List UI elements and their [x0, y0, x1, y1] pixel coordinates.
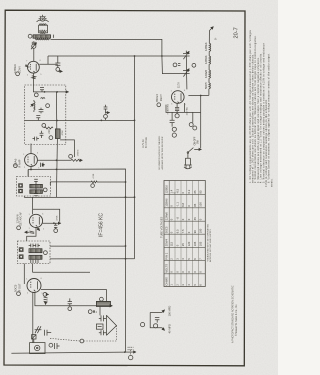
- svg-text:NO IDENTIFICATION OF THE MFR.: NO IDENTIFICATION OF THE MFR.: [158, 135, 161, 169]
- svg-text:2: 2: [24, 167, 25, 169]
- capacitor C16 on screen wire: [68, 298, 72, 310]
- svg-text:100: 100: [199, 228, 203, 233]
- svg-text:5: 5: [38, 167, 39, 169]
- ref R4 circle: [69, 155, 73, 159]
- electrolytic C17A: [170, 112, 177, 137]
- ref C9 circle: [42, 124, 46, 128]
- wire long vertical bus B plus: [134, 56, 136, 259]
- border frame: [4, 10, 245, 366]
- value 470K marks: [57, 215, 59, 221]
- svg-text:-.6: -.6: [175, 217, 179, 221]
- wire af grid lines: [24, 264, 90, 285]
- ref V4 circle: [17, 292, 21, 296]
- capacitor C8: [40, 131, 44, 138]
- IF coil primary hatched: [55, 129, 60, 139]
- svg-text:5: 5: [42, 293, 43, 295]
- output transformer T2: [96, 297, 112, 306]
- svg-text:6: 6: [41, 278, 42, 280]
- svg-text:1: 1: [26, 279, 27, 281]
- svg-text:DET-AVC-AF: DET-AVC-AF: [20, 211, 23, 225]
- tube V2 12BA6 IF amp: [25, 144, 38, 167]
- svg-text:40 MFD: 40 MFD: [167, 324, 171, 333]
- capacitor C7 with ground arrow: [104, 105, 110, 121]
- svg-text:12BE6: 12BE6: [204, 42, 208, 51]
- pin 3 tick: [53, 35, 55, 38]
- svg-text:5: 5: [43, 229, 44, 231]
- svg-text:120: 120: [187, 241, 191, 246]
- notes list right margin: [249, 29, 274, 187]
- svg-text:1: 1: [35, 77, 36, 79]
- value marks electrolytic: [167, 306, 171, 334]
- wire coil top to plate resistor: [60, 140, 74, 157]
- svg-text:APPEARS UPON THIS RECEIVER: APPEARS UPON THIS RECEIVER: [161, 136, 164, 169]
- dashed gang link: [50, 326, 117, 341]
- wire screen feed: [35, 293, 97, 306]
- svg-text:105: 105: [199, 241, 203, 246]
- svg-text:©Howard W. Sams & Co., Inc.: ©Howard W. Sams & Co., Inc.: [235, 304, 238, 336]
- ref R6 circle right: [44, 251, 48, 255]
- svg-text:2. Socket connections are sho: 2. Socket connections are shown as botto…: [254, 35, 257, 183]
- svg-text:±15% in voltage and resistance: ±15% in voltage and resistance readings …: [265, 99, 268, 187]
- label on-off sw: [194, 136, 199, 145]
- ref trimmer left: [173, 63, 177, 67]
- svg-text:5: 5: [185, 104, 186, 106]
- ref C8 circle: [49, 136, 53, 140]
- pin digits specks: [23, 60, 185, 295]
- heater labels: [204, 42, 208, 89]
- AVC arrow: [37, 228, 40, 231]
- svg-text:VOLTS: VOLTS: [165, 264, 169, 273]
- phono jack scribbles: [35, 326, 52, 335]
- svg-text:12BA6: 12BA6: [204, 55, 208, 64]
- label V2 12BA6 IF: [13, 158, 21, 168]
- svg-text:105: 105: [193, 241, 197, 246]
- resistor R4 with arrow: [71, 159, 82, 161]
- svg-text:ACROSS 117V AC LINE SUPPLY: ACROSS 117V AC LINE SUPPLY: [209, 229, 212, 262]
- resistor det cathode: [25, 231, 35, 233]
- wire bus y120: [25, 119, 135, 121]
- value R5 marks: [93, 173, 95, 178]
- capacitor pair bottom: [31, 260, 38, 263]
- svg-text:35W4: 35W4: [165, 239, 169, 247]
- svg-text:50C5: 50C5: [204, 82, 208, 89]
- photofact footer: [232, 285, 238, 343]
- wire screen bus y182: [50, 182, 125, 185]
- wire vol to bus y246: [50, 245, 126, 247]
- svg-text:470K: 470K: [62, 130, 64, 136]
- svg-text:2: 2: [29, 228, 30, 230]
- disclaimer text mid: [158, 135, 164, 169]
- svg-text:IF AMP: IF AMP: [18, 159, 22, 168]
- ref V3 circle: [17, 226, 21, 230]
- line cord plug: [184, 153, 192, 169]
- svg-text:2: 2: [27, 293, 28, 295]
- node junction dots top bus: [134, 55, 163, 57]
- cathode capacitor 12BA6: [41, 163, 45, 167]
- ref V2 circle: [14, 164, 18, 168]
- resistor R5 on screen bus: [91, 181, 97, 183]
- ref trimmer right: [192, 63, 196, 67]
- svg-text:7.5: 7.5: [181, 229, 185, 233]
- tube V1 12BE6 converter: [28, 61, 40, 73]
- svg-text:12AV6: 12AV6: [165, 212, 169, 221]
- label V4 50C5: [13, 283, 21, 293]
- label 117V: [177, 82, 181, 88]
- svg-text:50C5: 50C5: [13, 284, 17, 292]
- label V5 35W4 RECT: [155, 94, 189, 116]
- svg-text:-6.5: -6.5: [175, 188, 179, 193]
- svg-text:1. DC Voltage measurements ar: 1. DC Voltage measurements are at 20,000…: [249, 29, 252, 183]
- svg-text:117V AC: 117V AC: [186, 107, 189, 116]
- jack box with socket: [30, 343, 45, 354]
- svg-text:measured at 1,000 ohms per vol: measured at 1,000 ohms per volt. Socket …: [252, 53, 255, 183]
- svg-text:* MEASURED WITH SET OPERATING: * MEASURED WITH SET OPERATING: [207, 223, 210, 262]
- svg-text:IF=456 KC: IF=456 KC: [99, 213, 105, 237]
- speaker assembly: [96, 307, 116, 336]
- svg-text:470K: 470K: [57, 215, 59, 221]
- svg-text:B-: B-: [214, 37, 217, 40]
- tube V4 50C5 output: [27, 279, 41, 293]
- power sub box: [166, 96, 201, 113]
- oscillator dashed box: [25, 85, 66, 145]
- svg-text:ments.: ments.: [270, 178, 273, 187]
- surge resistor M1: [175, 103, 179, 118]
- svg-text:RECT: RECT: [159, 94, 163, 101]
- loop antenna sunburst L1: [37, 15, 49, 22]
- capacitor bottom in box: [34, 188, 38, 196]
- svg-text:12AV6: 12AV6: [15, 214, 19, 223]
- ref C12 circle: [54, 229, 58, 233]
- oscillator coil tapped: [31, 100, 35, 112]
- svg-text:7: 7: [26, 60, 27, 62]
- ref A1 circle: [28, 34, 32, 38]
- grid cap scribble: [25, 64, 27, 66]
- capacitor C4: [55, 56, 62, 71]
- svg-text:ON-OFF: ON-OFF: [194, 136, 196, 145]
- svg-text:3: 3: [171, 104, 172, 106]
- value marks R4: [78, 149, 80, 156]
- svg-text:20-7: 20-7: [233, 27, 239, 38]
- IF2 coil lower hatched: [30, 190, 43, 194]
- wire grid lead: [33, 48, 35, 61]
- ref V1 circle: [16, 72, 20, 76]
- volume coil upper hatched: [29, 249, 42, 253]
- wire 50C5 plate to OT: [41, 290, 107, 302]
- capacitor osc padder: [39, 108, 44, 114]
- ref and capacitor right of jack: [49, 343, 60, 349]
- tube V3 12AV6 det avc af: [29, 214, 42, 227]
- svg-text:12BE6: 12BE6: [165, 185, 169, 194]
- svg-text:4. Line voltage maintained at: 4. Line voltage maintained at 117 Volts …: [260, 53, 263, 183]
- trimmer capacitor A: [183, 51, 190, 60]
- svg-text:OHMS: OHMS: [165, 277, 169, 286]
- svg-text:85: 85: [193, 203, 197, 206]
- svg-text:50C5: 50C5: [165, 226, 169, 233]
- voltage table grid: [164, 181, 205, 287]
- svg-text:60 CYCLE: 60 CYCLE: [146, 137, 148, 148]
- svg-text:3. Measured values are with n: 3. Measured values are with no signal in…: [257, 57, 260, 183]
- wire det down: [27, 228, 36, 242]
- svg-text:6: 6: [37, 153, 38, 155]
- svg-text:TUBE VOLTAGES: TUBE VOLTAGES: [159, 216, 163, 238]
- coil L2 scribble: [41, 98, 45, 99]
- svg-text:85: 85: [199, 190, 203, 193]
- tuning capacitor C1A: [31, 41, 37, 49]
- svg-text:6: 6: [40, 60, 41, 62]
- svg-text:6: 6: [184, 90, 185, 92]
- svg-text:5. Nominal tolerance on compo: 5. Nominal tolerance on component values…: [262, 43, 265, 183]
- ref boxes left: [19, 184, 23, 188]
- svg-text:6.3: 6.3: [187, 189, 191, 193]
- svg-text:6.5: 6.5: [175, 229, 179, 233]
- secondary loops row: [35, 39, 49, 40]
- wire det diode lead: [43, 222, 60, 224]
- svg-text:6: 6: [42, 213, 43, 215]
- value 22K marks: [47, 129, 51, 134]
- ground arrow det: [60, 222, 61, 224]
- volume coil lower hatched: [29, 255, 42, 259]
- trimmer capacitor B: [183, 69, 190, 77]
- wire switch feed: [200, 112, 202, 145]
- label V3 12AV6: [15, 211, 22, 225]
- svg-text:100 MFD: 100 MFD: [167, 306, 171, 317]
- ref L2 circle: [46, 104, 50, 108]
- wire det grid: [32, 198, 34, 215]
- wire 50C5 down to jack: [32, 293, 34, 343]
- wire into box: [27, 170, 29, 177]
- svg-text:35: 35: [181, 243, 185, 246]
- value marks right of coil: [62, 130, 64, 136]
- electrolytic network right: [141, 310, 165, 331]
- wire cathode into osc box: [32, 73, 34, 92]
- wire trimmer down to rect tube: [185, 56, 188, 89]
- svg-text:115: 115: [170, 242, 174, 247]
- svg-text:-1.1: -1.1: [175, 202, 179, 207]
- svg-text:12AV6: 12AV6: [204, 69, 208, 78]
- ref boxes left vol: [19, 248, 23, 252]
- label V1 12BE6 CONV: [13, 64, 21, 74]
- svg-text:1 MEG: 1 MEG: [78, 149, 80, 156]
- tube V5 35W4 rectifier: [172, 91, 185, 104]
- wire heater to rectifier: [188, 94, 209, 96]
- IF transformer second dashed box: [17, 177, 51, 197]
- wire det plate jog: [33, 209, 60, 222]
- IF2 coil upper hatched: [30, 184, 43, 188]
- svg-text:22K: 22K: [47, 129, 51, 134]
- svg-text:CONV: CONV: [17, 66, 21, 74]
- antenna coil loops bottom: [39, 30, 46, 33]
- wire osc plate bus: [33, 91, 69, 93]
- table side note: [207, 223, 213, 262]
- svg-text:2: 2: [27, 74, 28, 76]
- svg-text:1: 1: [29, 214, 30, 216]
- antenna coil box: [39, 25, 48, 33]
- svg-text:470K: 470K: [93, 173, 95, 178]
- svg-text:1: 1: [171, 90, 172, 92]
- svg-text:PIN 1: PIN 1: [165, 252, 169, 259]
- wire B plus vertical: [56, 92, 57, 197]
- electrolytic C18 below bus: [128, 347, 134, 360]
- svg-text:117V: 117V: [177, 82, 181, 88]
- capacitor pair top: [29, 244, 40, 248]
- capacitor tone: [32, 335, 36, 343]
- antenna coil loops top: [39, 24, 46, 25]
- ref V5 circle: [157, 103, 161, 107]
- svg-text:117V AC: 117V AC: [142, 139, 145, 148]
- wire cathode down: [28, 166, 31, 176]
- resistor 22K: [44, 127, 53, 129]
- table header label: [159, 216, 163, 238]
- svg-text:45: 45: [193, 217, 197, 220]
- wire top antenna bus: [48, 39, 183, 73]
- wire plate lead right: [39, 56, 58, 64]
- svg-text:12BA6: 12BA6: [165, 198, 169, 207]
- on-off switch: [187, 145, 201, 153]
- wire vol to bus y259: [50, 258, 135, 260]
- ground bus bottom: [11, 352, 136, 353]
- cathode network 50C5: [43, 293, 49, 305]
- ref pin2 left of OT: [88, 310, 97, 314]
- svg-text:90: 90: [193, 230, 197, 233]
- capacitor C8b: [33, 137, 40, 141]
- capacitor lower: [36, 116, 40, 121]
- svg-text:100: 100: [199, 202, 203, 207]
- ref T3 circle right: [43, 188, 47, 192]
- ref pair right: [189, 112, 197, 130]
- svg-text:6. Volume control at maximum,: 6. Volume control at maximum, no signal …: [268, 53, 271, 183]
- volume control transformer dashed box: [17, 241, 50, 264]
- ref R5 circle: [91, 184, 95, 188]
- table cell text marks: [165, 185, 203, 286]
- svg-text:5: 5: [40, 74, 41, 76]
- resistor cathode bars: [32, 76, 36, 79]
- wire AVC bus y169 with corner down: [28, 169, 125, 352]
- svg-text:85: 85: [193, 190, 197, 193]
- antenna coil secondary winding T1: [33, 35, 51, 38]
- ref on gang link: [80, 339, 84, 343]
- svg-text:6.8: 6.8: [181, 203, 185, 207]
- heater string: [209, 27, 218, 96]
- svg-text:1: 1: [23, 154, 24, 156]
- capacitor top in box: [34, 179, 38, 184]
- capacitor osc grid: [40, 88, 44, 92]
- ref C2 circle: [34, 93, 38, 97]
- callout 117VAC column: [142, 137, 148, 148]
- capacitor det out: [54, 223, 57, 228]
- wire det top bus y197: [24, 196, 134, 198]
- wire plate 12BA6: [37, 159, 71, 161]
- svg-text:35W4: 35W4: [155, 94, 159, 102]
